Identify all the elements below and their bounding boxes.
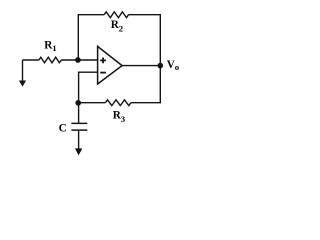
resistor R3 [105,100,130,106]
arrowhead input [19,81,26,87]
resistor R2 [104,12,128,18]
op-amp plus input symbol [100,58,106,64]
svg-text:R2: R2 [111,19,124,33]
op-amp U1 triangle [98,46,123,84]
wire: R1 to noninverting input [61,59,97,61]
wire: top feedback right segment [129,15,161,66]
svg-text:R3: R3 [113,110,126,124]
wire: top feedback left segment [78,15,104,60]
svg-text:Vo: Vo [167,59,180,72]
svg-text:R1: R1 [44,40,57,53]
wire: bottom loop left segment [79,102,106,104]
wire: input left with down arrow [22,60,24,81]
node: junction at capacitor/R3 [75,100,81,106]
wire: capacitor to ground arrow [78,130,80,149]
ground arrowhead [75,148,82,155]
node: Vo junction dot [158,63,164,69]
wire: output to Vo node [122,65,160,67]
wire: input horizontal to R1 [23,59,39,61]
resistor R1 [39,57,61,63]
node: junction at + input [75,57,81,63]
capacitor C plates [71,123,87,130]
svg-text:C: C [59,122,67,134]
wire: inverting input stub [79,72,98,123]
wire: bottom loop right segment [131,66,160,103]
op-amp minus input symbol [100,72,106,74]
